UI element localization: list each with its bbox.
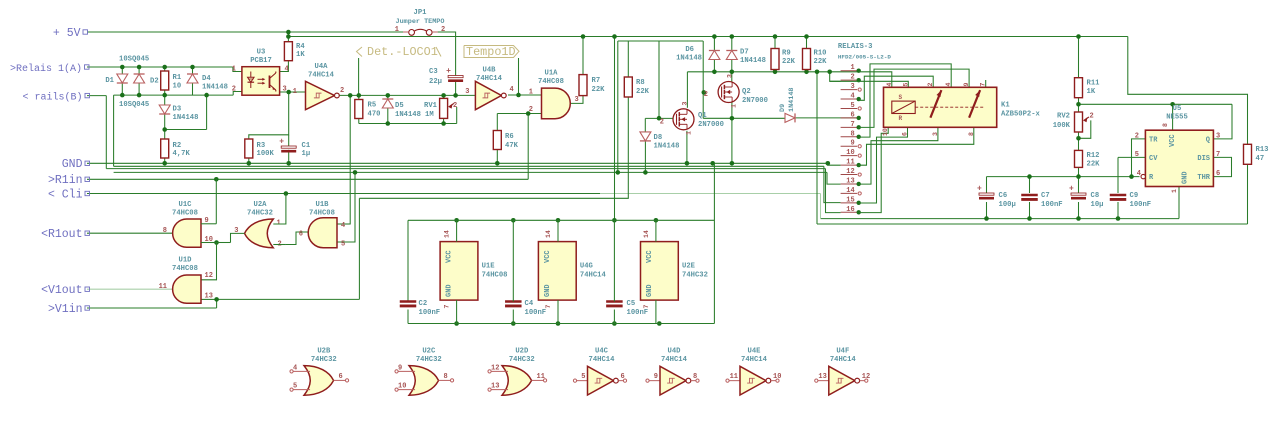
svg-text:74HC08: 74HC08 <box>538 78 564 86</box>
svg-text:U4C: U4C <box>595 348 609 356</box>
svg-text:1N4148: 1N4148 <box>788 88 796 112</box>
svg-text:13: 13 <box>205 293 213 301</box>
svg-text:R3: R3 <box>257 142 266 150</box>
svg-text:74HC08: 74HC08 <box>172 210 198 218</box>
svg-text:< rails(B): < rails(B) <box>22 91 82 103</box>
svg-text:2: 2 <box>850 74 854 82</box>
svg-text:D5: D5 <box>395 102 404 110</box>
svg-text:GND: GND <box>544 284 552 297</box>
svg-text:S: S <box>899 94 903 101</box>
svg-text:1N4148: 1N4148 <box>676 55 702 63</box>
svg-text:C9: C9 <box>1130 192 1139 200</box>
svg-text:VCC: VCC <box>1169 134 1177 147</box>
svg-text:AZB50P2-x: AZB50P2-x <box>1001 111 1041 119</box>
svg-text:1: 1 <box>1171 189 1178 193</box>
svg-text:1N4148: 1N4148 <box>202 84 228 92</box>
svg-text:6: 6 <box>1216 170 1220 178</box>
svg-text:2: 2 <box>704 91 708 99</box>
svg-text:2: 2 <box>453 102 457 110</box>
svg-text:R11: R11 <box>1087 80 1101 88</box>
svg-text:7: 7 <box>545 305 552 309</box>
svg-text:>R1in: >R1in <box>48 174 83 187</box>
svg-text:U2B: U2B <box>317 348 331 356</box>
svg-text:74HC14: 74HC14 <box>589 356 616 364</box>
svg-text:>V1in: >V1in <box>48 303 83 316</box>
svg-text:GND: GND <box>62 158 83 171</box>
svg-text:1: 1 <box>293 88 297 96</box>
svg-text:4: 4 <box>1137 170 1141 178</box>
svg-text:CV: CV <box>1149 155 1158 163</box>
svg-text:U1E: U1E <box>482 263 496 271</box>
svg-text:U4G: U4G <box>580 263 593 271</box>
svg-text:3: 3 <box>850 83 854 91</box>
svg-text:RELAIS-3: RELAIS-3 <box>838 43 873 51</box>
svg-text:R8: R8 <box>636 79 645 87</box>
svg-text:14: 14 <box>545 230 552 238</box>
svg-text:+: + <box>977 185 982 194</box>
svg-text:2: 2 <box>441 26 445 34</box>
svg-text:NE555: NE555 <box>1166 114 1188 122</box>
svg-text:1µ: 1µ <box>302 150 311 158</box>
svg-text:R9: R9 <box>782 50 791 58</box>
svg-text:K1: K1 <box>1001 102 1010 110</box>
svg-text:D1: D1 <box>105 77 114 85</box>
svg-text:3: 3 <box>682 102 689 106</box>
svg-text:Q2: Q2 <box>742 88 751 96</box>
svg-text:<V1out: <V1out <box>41 284 82 297</box>
svg-text:8: 8 <box>968 132 975 136</box>
svg-text:100nF: 100nF <box>1041 201 1063 209</box>
svg-text:12: 12 <box>862 373 870 381</box>
svg-text:D4: D4 <box>202 75 211 83</box>
svg-text:74HC32: 74HC32 <box>509 356 535 364</box>
svg-text:R: R <box>899 115 903 122</box>
svg-text:1: 1 <box>529 89 533 97</box>
svg-text:U1A: U1A <box>545 70 559 78</box>
svg-text:U2A: U2A <box>254 201 268 209</box>
svg-text:C4: C4 <box>525 300 534 308</box>
svg-text:7: 7 <box>980 83 987 87</box>
svg-text:1: 1 <box>232 66 236 74</box>
svg-text:13: 13 <box>846 177 854 185</box>
svg-text:+ 5V: + 5V <box>53 27 81 40</box>
svg-text:4: 4 <box>510 86 514 94</box>
svg-text:100nF: 100nF <box>419 309 441 317</box>
svg-text:HFD2/005-S-L2-D: HFD2/005-S-L2-D <box>838 54 891 61</box>
svg-text:C2: C2 <box>419 300 428 308</box>
svg-text:R10: R10 <box>814 50 827 58</box>
svg-text:4: 4 <box>341 222 345 230</box>
svg-text:>Relais 1(A): >Relais 1(A) <box>10 63 82 75</box>
svg-text:14: 14 <box>444 230 451 238</box>
svg-text:100nF: 100nF <box>1130 201 1152 209</box>
svg-text:74HC32: 74HC32 <box>311 356 337 364</box>
svg-text:< Cli: < Cli <box>48 188 83 201</box>
svg-text:100K: 100K <box>257 150 275 158</box>
svg-text:JP1: JP1 <box>414 9 428 17</box>
svg-text:47: 47 <box>1256 155 1265 163</box>
svg-text:D6: D6 <box>685 46 694 54</box>
svg-text:VCC: VCC <box>544 250 552 263</box>
svg-text:13: 13 <box>818 373 826 381</box>
svg-text:Tempo1D: Tempo1D <box>466 45 516 59</box>
svg-text:1: 1 <box>850 64 854 72</box>
svg-text:4: 4 <box>945 83 952 87</box>
svg-text:6: 6 <box>299 231 303 239</box>
svg-text:9: 9 <box>398 364 402 372</box>
svg-text:D8: D8 <box>654 134 663 142</box>
svg-text:Q1: Q1 <box>698 112 707 120</box>
svg-text:5: 5 <box>293 383 297 391</box>
svg-text:10: 10 <box>773 373 781 381</box>
svg-text:C5: C5 <box>627 300 636 308</box>
svg-text:9: 9 <box>850 140 854 148</box>
svg-text:U3: U3 <box>257 49 266 57</box>
svg-text:D7: D7 <box>740 49 749 57</box>
svg-text:3: 3 <box>932 132 939 136</box>
svg-text:7: 7 <box>643 305 650 309</box>
svg-text:1N4148: 1N4148 <box>654 143 680 151</box>
svg-text:2: 2 <box>1135 133 1139 141</box>
svg-text:U4F: U4F <box>836 348 849 356</box>
svg-text:74HC14: 74HC14 <box>741 356 768 364</box>
svg-text:13: 13 <box>491 383 499 391</box>
svg-text:THR: THR <box>1197 174 1210 182</box>
svg-text:74HC14: 74HC14 <box>476 75 503 83</box>
svg-text:22K: 22K <box>1087 161 1101 169</box>
svg-text:1K: 1K <box>296 51 305 59</box>
svg-text:12: 12 <box>846 168 854 176</box>
svg-text:8: 8 <box>693 373 697 381</box>
svg-text:2: 2 <box>340 87 344 95</box>
svg-text:PCB17: PCB17 <box>250 57 272 65</box>
svg-text:1: 1 <box>731 104 738 108</box>
svg-text:74HC14: 74HC14 <box>580 272 607 280</box>
svg-text:Det.-LOCO1: Det.-LOCO1 <box>367 45 438 59</box>
svg-text:7: 7 <box>444 305 451 309</box>
svg-text:2: 2 <box>927 83 934 87</box>
svg-text:47K: 47K <box>505 142 519 150</box>
svg-text:4: 4 <box>293 364 297 372</box>
svg-text:10µ: 10µ <box>1091 201 1104 209</box>
svg-text:1: 1 <box>395 26 399 34</box>
svg-text:C1: C1 <box>302 142 311 150</box>
svg-text:1N4148: 1N4148 <box>740 57 766 65</box>
svg-text:1K: 1K <box>1087 88 1096 96</box>
svg-text:U1D: U1D <box>179 257 193 265</box>
svg-text:8: 8 <box>1162 123 1169 127</box>
svg-text:74HC14: 74HC14 <box>661 356 688 364</box>
svg-text:74HC08: 74HC08 <box>172 265 198 273</box>
svg-text:U2C: U2C <box>422 348 436 356</box>
svg-text:10: 10 <box>846 149 854 157</box>
svg-text:VCC: VCC <box>446 250 454 263</box>
svg-text:1: 1 <box>686 131 693 135</box>
svg-text:GND: GND <box>646 284 654 297</box>
svg-text:7: 7 <box>1216 151 1220 159</box>
svg-text:5: 5 <box>902 83 909 87</box>
svg-text:3: 3 <box>575 96 579 104</box>
svg-text:14: 14 <box>643 230 650 238</box>
svg-text:DIS: DIS <box>1197 155 1210 163</box>
svg-text:3: 3 <box>465 88 469 96</box>
svg-text:R7: R7 <box>592 77 601 85</box>
svg-text:3: 3 <box>1216 133 1220 141</box>
svg-text:2: 2 <box>660 119 664 127</box>
svg-text:11: 11 <box>846 159 854 167</box>
svg-text:10SQ045: 10SQ045 <box>119 101 149 109</box>
svg-text:22µ: 22µ <box>429 78 442 86</box>
svg-text:11: 11 <box>537 373 545 381</box>
svg-text:15: 15 <box>846 196 854 204</box>
svg-text:VCC: VCC <box>646 250 654 263</box>
svg-text:6: 6 <box>902 132 909 136</box>
svg-text:C3: C3 <box>429 68 438 76</box>
svg-text:10: 10 <box>398 383 406 391</box>
svg-text:5: 5 <box>581 373 585 381</box>
svg-text:5: 5 <box>1135 151 1139 159</box>
svg-text:5: 5 <box>850 102 854 110</box>
svg-text:U5: U5 <box>1173 105 1182 113</box>
svg-text:2: 2 <box>529 106 533 114</box>
svg-text:74HC32: 74HC32 <box>247 210 273 218</box>
svg-text:2: 2 <box>232 86 236 94</box>
svg-text:100nF: 100nF <box>525 309 547 317</box>
svg-text:R1: R1 <box>173 74 182 82</box>
svg-text:C6: C6 <box>999 192 1008 200</box>
svg-text:6: 6 <box>621 373 625 381</box>
svg-text:5: 5 <box>341 241 345 249</box>
svg-text:16: 16 <box>846 206 854 214</box>
svg-text:GND: GND <box>1182 171 1190 184</box>
svg-text:74HC14: 74HC14 <box>308 72 335 80</box>
svg-text:D2: D2 <box>150 78 159 86</box>
svg-text:1N4148: 1N4148 <box>395 111 421 119</box>
svg-text:D9: D9 <box>779 104 787 112</box>
svg-text:C8: C8 <box>1091 192 1100 200</box>
svg-text:2N7000: 2N7000 <box>698 121 724 129</box>
svg-text:74HC32: 74HC32 <box>416 356 442 364</box>
svg-text:U2D: U2D <box>515 348 529 356</box>
svg-text:12: 12 <box>205 272 213 280</box>
svg-text:+: + <box>1069 185 1074 194</box>
svg-text:74HC32: 74HC32 <box>682 272 708 280</box>
svg-text:1M: 1M <box>425 111 434 119</box>
svg-text:11: 11 <box>159 283 167 291</box>
svg-text:GND: GND <box>446 284 454 297</box>
svg-text:R12: R12 <box>1087 152 1100 160</box>
svg-text:11: 11 <box>730 373 738 381</box>
svg-text:7: 7 <box>850 121 854 129</box>
svg-text:9: 9 <box>654 373 658 381</box>
svg-text:10: 10 <box>173 83 182 91</box>
svg-text:U4D: U4D <box>668 348 682 356</box>
svg-text:2N7000: 2N7000 <box>742 97 768 105</box>
svg-text:U2E: U2E <box>682 263 696 271</box>
svg-text:22K: 22K <box>814 58 828 66</box>
svg-text:9: 9 <box>963 83 970 87</box>
svg-text:100K: 100K <box>1053 122 1071 130</box>
svg-text:R2: R2 <box>173 142 182 150</box>
svg-text:4,7K: 4,7K <box>173 150 191 158</box>
svg-text:3: 3 <box>283 86 287 94</box>
svg-text:4: 4 <box>850 93 854 101</box>
svg-text:R4: R4 <box>296 43 305 51</box>
svg-text:RV1: RV1 <box>424 102 438 110</box>
svg-text:6: 6 <box>850 111 854 119</box>
svg-text:22K: 22K <box>782 58 796 66</box>
svg-text:100nF: 100nF <box>627 309 649 317</box>
svg-text:4: 4 <box>886 83 893 87</box>
svg-text:+: + <box>279 138 284 147</box>
svg-text:12: 12 <box>491 364 499 372</box>
svg-text:U4B: U4B <box>483 67 497 75</box>
svg-text:3: 3 <box>727 74 734 78</box>
svg-text:D3: D3 <box>173 106 182 114</box>
svg-text:470: 470 <box>368 111 381 119</box>
svg-text:U4A: U4A <box>315 63 329 71</box>
svg-text:74HC14: 74HC14 <box>830 356 857 364</box>
svg-text:2: 2 <box>1090 113 1094 121</box>
svg-text:1N4148: 1N4148 <box>173 114 199 122</box>
svg-text:C7: C7 <box>1041 192 1050 200</box>
svg-text:+: + <box>446 67 451 76</box>
svg-text:14: 14 <box>846 187 854 195</box>
svg-text:22K: 22K <box>636 88 650 96</box>
svg-text:<R1out: <R1out <box>41 228 82 241</box>
svg-text:8: 8 <box>444 373 448 381</box>
svg-text:Jumper TEMPO: Jumper TEMPO <box>396 18 445 26</box>
svg-text:R5: R5 <box>368 102 377 110</box>
svg-text:6: 6 <box>339 373 343 381</box>
svg-text:8: 8 <box>163 227 167 235</box>
svg-text:74HC08: 74HC08 <box>482 272 508 280</box>
svg-text:8: 8 <box>850 130 854 138</box>
svg-text:100µ: 100µ <box>999 201 1016 209</box>
svg-text:4: 4 <box>285 66 289 74</box>
svg-text:R6: R6 <box>505 133 514 141</box>
svg-text:TR: TR <box>1149 137 1158 145</box>
svg-text:RV2: RV2 <box>1057 113 1070 121</box>
svg-text:Q: Q <box>1206 137 1210 145</box>
svg-text:74HC08: 74HC08 <box>309 210 335 218</box>
svg-text:U1C: U1C <box>179 201 193 209</box>
svg-text:22K: 22K <box>592 86 606 94</box>
svg-text:R13: R13 <box>1256 146 1269 154</box>
svg-text:U4E: U4E <box>748 348 762 356</box>
svg-text:10SQ045: 10SQ045 <box>119 56 149 64</box>
svg-text:10: 10 <box>882 128 889 136</box>
svg-text:U1B: U1B <box>316 201 330 209</box>
